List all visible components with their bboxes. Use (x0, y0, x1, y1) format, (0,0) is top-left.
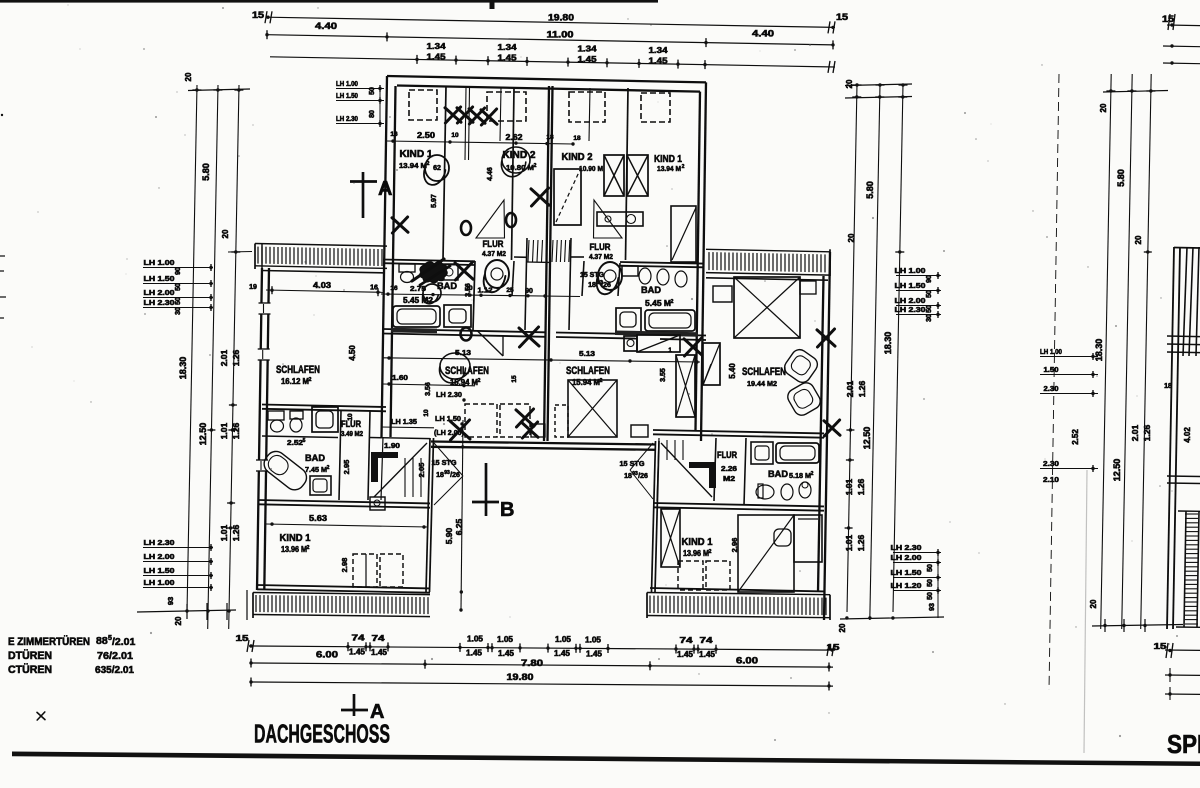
building right outer wall (centre block) (701, 82, 706, 441)
svg-text:1.26: 1.26 (1142, 424, 1152, 441)
svg-text:12.50: 12.50 (1112, 459, 1122, 482)
svg-text:LH 1.00: LH 1.00 (144, 258, 175, 267)
revision scribbles XXXX top (445, 107, 461, 123)
kind1 dashed furniture (353, 554, 377, 587)
svg-text:18.30: 18.30 (1094, 339, 1104, 362)
svg-text:3.49 M2: 3.49 M2 (341, 431, 363, 438)
svg-text:5.90: 5.90 (444, 527, 454, 544)
door mark O left unit (461, 328, 472, 341)
sheet top edge line (0, 0, 658, 3)
scribble loop over KIND 2 (501, 147, 530, 177)
svg-text:2.30: 2.30 (1043, 459, 1059, 468)
svg-text:5.80: 5.80 (865, 181, 875, 199)
wall line below TR balcony (706, 278, 828, 280)
svg-text:19.80: 19.80 (548, 13, 574, 23)
top dim chain 19.80 (267, 17, 835, 27)
svg-text:6.00: 6.00 (736, 655, 758, 665)
X scribble at party wall mid (519, 327, 539, 347)
schlafen top wall left unit (dark) (383, 329, 545, 332)
svg-text:3.56: 3.56 (425, 382, 432, 396)
left dimension chain verticals (187, 85, 197, 612)
window breaks on left wing west wall (260, 303, 270, 314)
right unit stairs bottom (657, 438, 659, 501)
svg-text:LH 1.50: LH 1.50 (144, 566, 175, 575)
svg-text:50: 50 (927, 579, 934, 587)
svg-text:635/2.01: 635/2.01 (95, 664, 134, 676)
shower left wing bad (310, 476, 331, 495)
svg-text:13.94 M: 13.94 M (657, 164, 681, 173)
svg-text:5.80: 5.80 (201, 163, 211, 181)
svg-text:18.30: 18.30 (883, 332, 893, 355)
svg-text:1.01: 1.01 (219, 524, 229, 541)
svg-text:1.45: 1.45 (427, 51, 446, 61)
bathtub diagonal left wing (260, 447, 310, 493)
stairs left unit top band (528, 240, 529, 262)
bottom dim chain 19.80 (251, 682, 833, 686)
interior dim line top band (387, 141, 573, 144)
svg-text:4.40: 4.40 (752, 29, 774, 39)
svg-text:1.01: 1.01 (844, 534, 854, 551)
svg-text:2.52: 2.52 (287, 438, 303, 447)
entrance doors top band (476, 200, 505, 238)
svg-text:5.63: 5.63 (309, 514, 328, 523)
shaft boxes with X (604, 155, 624, 196)
right kind1 wardrobe X (661, 509, 680, 567)
svg-text:50: 50 (175, 283, 182, 291)
balcony top-left hatch (255, 244, 387, 247)
svg-text:1.01: 1.01 (844, 478, 854, 495)
right drawing walls (1167, 247, 1174, 629)
top dim chain 4.40 / 11.00 / 4.40 (267, 35, 833, 45)
right unit flur walls (618, 263, 620, 296)
bottom dim chain 6.00 / 7.80 / 6.00 (251, 663, 833, 667)
svg-text:2.52: 2.52 (1071, 429, 1080, 445)
svg-text:1.26: 1.26 (856, 534, 866, 551)
svg-text:50: 50 (927, 592, 934, 600)
schlafen top wall right unit (dark) (556, 333, 706, 336)
svg-text:30: 30 (175, 307, 182, 315)
schlafen dim line both units (383, 358, 700, 362)
svg-text:7.80: 7.80 (521, 658, 543, 668)
svg-text:1.34: 1.34 (578, 44, 597, 54)
svg-text:50: 50 (369, 87, 376, 95)
svg-text:LH 1.50: LH 1.50 (891, 568, 922, 577)
svg-text:4.50: 4.50 (348, 345, 357, 361)
svg-text:/26: /26 (638, 473, 648, 480)
svg-text:2: 2 (811, 471, 814, 477)
svg-text:2: 2 (307, 545, 310, 551)
svg-text:30: 30 (926, 314, 933, 322)
svg-text:SCHLAFEN: SCHLAFEN (566, 365, 610, 377)
svg-text:16: 16 (390, 285, 398, 292)
svg-text:1.34: 1.34 (649, 45, 668, 55)
svg-text:6.00: 6.00 (316, 650, 338, 660)
svg-text:15 STG: 15 STG (620, 459, 645, 468)
section marker B (485, 463, 488, 516)
KIND rooms bottom walls (383, 260, 475, 262)
svg-text:2.10: 2.10 (1043, 475, 1059, 484)
svg-text:1.45: 1.45 (466, 649, 483, 658)
svg-text:5.13: 5.13 (579, 349, 595, 358)
X on left wall (392, 217, 408, 233)
centre block bottom wall (431, 442, 656, 445)
cabinet right wing (703, 343, 720, 385)
svg-text:90: 90 (175, 267, 182, 275)
X marks centre schlafen (450, 420, 470, 440)
right unit bathtub (645, 310, 695, 331)
svg-text:LH 2.30: LH 2.30 (895, 305, 926, 314)
svg-text:15: 15 (252, 10, 264, 20)
left unit stairs (368, 411, 370, 500)
svg-text:CTÜREN: CTÜREN (8, 663, 52, 676)
balcony bottom-right hatch (647, 593, 830, 595)
svg-text:1.45: 1.45 (498, 53, 517, 63)
svg-text:1.26: 1.26 (856, 478, 866, 495)
right kind1 bottom wall (650, 588, 824, 591)
svg-text:93: 93 (166, 597, 175, 605)
schlafen 16.12 dim (266, 290, 383, 292)
svg-text:1.60: 1.60 (392, 373, 408, 382)
svg-text:10.90 M: 10.90 M (579, 164, 603, 173)
svg-text:2: 2 (682, 164, 685, 170)
right drawing balcony hatch (1184, 511, 1186, 627)
left edge specks (0, 255, 5, 257)
svg-text:74: 74 (700, 636, 714, 645)
door arc gap left (434, 443, 463, 505)
left unit BAD fixtures (399, 264, 415, 272)
svg-text:SPIT: SPIT (1167, 729, 1200, 759)
svg-text:13.94 M: 13.94 M (399, 161, 427, 170)
svg-text:20: 20 (1134, 235, 1143, 244)
svg-text:LH 2.30: LH 2.30 (436, 390, 462, 399)
svg-text:2.95: 2.95 (342, 460, 351, 475)
svg-text:18: 18 (573, 135, 581, 142)
right bottom unit top wall (653, 430, 824, 433)
svg-text:16: 16 (390, 131, 398, 138)
small speck mark (37, 712, 45, 720)
left wing bad top wall (262, 405, 386, 408)
svg-text:5.45 M: 5.45 M (645, 299, 671, 308)
svg-text:2.62: 2.62 (506, 133, 524, 142)
svg-text:1.45: 1.45 (498, 649, 515, 658)
svg-text:1.45: 1.45 (677, 650, 694, 659)
svg-text:1.90: 1.90 (384, 441, 400, 450)
svg-text:18: 18 (624, 473, 632, 480)
right drawing dim verticals (1101, 74, 1112, 629)
sheet top fold tick (490, 0, 495, 9)
svg-text:LH 1.20: LH 1.20 (891, 581, 922, 590)
section marker A top (362, 172, 365, 218)
svg-text:SCHLAFEN: SCHLAFEN (445, 365, 489, 377)
svg-text:LH 1.00: LH 1.00 (336, 79, 358, 88)
svg-text:4.37 M2: 4.37 M2 (482, 249, 506, 258)
top band partitions (443, 86, 446, 260)
svg-text:LH 1.50: LH 1.50 (435, 414, 461, 423)
wall line below TL balcony (262, 271, 385, 273)
O door marks (461, 221, 471, 235)
svg-text:1.05: 1.05 (497, 635, 514, 644)
right drawing section dash line (1049, 74, 1059, 690)
svg-text:1.26: 1.26 (231, 422, 241, 439)
svg-text:DTÜREN: DTÜREN (8, 649, 52, 662)
balcony top-right hatch (706, 249, 830, 252)
kitchenette right unit (624, 336, 637, 351)
right kind1 bed/desk (738, 515, 794, 592)
svg-text:4.46: 4.46 (487, 167, 494, 181)
left chain ticks top (188, 89, 250, 91)
wc loop left bad small (423, 284, 441, 304)
right bad 5.18 (744, 438, 746, 505)
sheet bottom fold bar (12, 752, 1200, 767)
svg-text:15 STG: 15 STG (432, 458, 457, 467)
balcony bottom-left hatch (253, 593, 430, 595)
svg-text:LH 2.30: LH 2.30 (891, 543, 922, 552)
svg-text:A: A (378, 178, 392, 200)
svg-text:62: 62 (433, 165, 441, 172)
svg-text:5.80: 5.80 (1116, 169, 1126, 187)
svg-text:2.30: 2.30 (1044, 384, 1059, 393)
left wing wc fixtures (268, 411, 284, 420)
svg-text:20: 20 (174, 616, 183, 625)
left chain mid ticks (229, 404, 237, 406)
svg-text:2.26: 2.26 (721, 464, 737, 473)
svg-text:13.96 M: 13.96 M (281, 545, 307, 554)
svg-text:50: 50 (927, 564, 934, 572)
svg-text:20: 20 (847, 233, 856, 242)
svg-text:18: 18 (588, 282, 596, 289)
right chain bottom (840, 617, 944, 619)
building outer top wall (387, 76, 706, 82)
svg-text:15: 15 (1154, 641, 1167, 651)
left unit bathtub (393, 306, 440, 327)
X right of blob (455, 262, 473, 280)
svg-text:LH 1.35: LH 1.35 (391, 417, 417, 426)
svg-text:2.01: 2.01 (1130, 424, 1140, 441)
svg-text:1.45: 1.45 (349, 648, 366, 657)
svg-text:LH 2.30: LH 2.30 (144, 538, 175, 547)
svg-text:74: 74 (372, 634, 386, 643)
right kind1 dashed furniture (678, 561, 703, 590)
svg-text:90: 90 (926, 275, 933, 283)
svg-text:1.34: 1.34 (427, 41, 446, 51)
kind1 left dim 5.63 (266, 524, 428, 527)
svg-text:2.01: 2.01 (845, 380, 855, 397)
svg-text:6.25: 6.25 (454, 518, 464, 535)
svg-text:LH 2.00: LH 2.00 (144, 288, 175, 297)
top dim chain 1.34/1.45 windows (270, 57, 835, 67)
svg-text:/2.01: /2.01 (112, 636, 136, 648)
svg-text:LH 2.00: LH 2.00 (895, 296, 926, 305)
svg-text:1.45: 1.45 (699, 650, 716, 659)
right wing outer wall (824, 252, 830, 620)
svg-text:2: 2 (327, 465, 330, 471)
svg-text:11.00: 11.00 (547, 30, 574, 40)
svg-text:KIND 2: KIND 2 (562, 152, 593, 163)
svg-text:LH 1.50: LH 1.50 (144, 274, 175, 283)
svg-text:1.45: 1.45 (554, 649, 571, 658)
right kind1 top wall (653, 503, 824, 506)
svg-text:93: 93 (444, 470, 450, 476)
svg-text:10: 10 (465, 285, 473, 292)
wardrobe top-right room (671, 206, 696, 262)
left unit washbasin (444, 305, 471, 327)
svg-text:15: 15 (511, 375, 518, 383)
left wing shower (312, 407, 338, 432)
gap vertical dim (461, 420, 463, 610)
svg-text:10: 10 (451, 132, 459, 139)
svg-text:2: 2 (600, 378, 603, 384)
svg-text:5: 5 (303, 438, 306, 444)
svg-text:4.03: 4.03 (313, 281, 332, 290)
dashed furniture left schlafen (465, 404, 497, 437)
svg-text:5.18 M: 5.18 M (789, 471, 811, 480)
svg-text:LH 1.00: LH 1.00 (144, 578, 175, 587)
svg-text:10: 10 (423, 409, 430, 417)
svg-text:LH 2.00: LH 2.00 (891, 553, 922, 562)
svg-text:2: 2 (671, 299, 674, 305)
svg-text:15: 15 (836, 12, 848, 22)
svg-text:20: 20 (1099, 103, 1108, 112)
svg-text:FLUR: FLUR (717, 450, 737, 460)
small box circle (370, 497, 385, 510)
svg-text:BAD: BAD (305, 453, 325, 464)
sheet fold shadow line (1084, 470, 1087, 753)
svg-text:LH 1.00: LH 1.00 (1040, 347, 1062, 356)
cistern fixture (597, 212, 643, 226)
blob left bad (420, 262, 447, 283)
wall bad/flur left wing (339, 411, 341, 500)
svg-text:12.50: 12.50 (862, 427, 872, 450)
svg-text:1.34: 1.34 (498, 42, 517, 52)
scribble loop over SCHLAFEN left-centre (440, 353, 470, 383)
svg-text:2.05: 2.05 (417, 463, 426, 478)
svg-text:LH 2.30: LH 2.30 (336, 114, 358, 123)
svg-text:20: 20 (845, 79, 854, 88)
BAD dim line (381, 294, 580, 297)
svg-text:20: 20 (838, 623, 847, 632)
svg-text:4.02: 4.02 (1183, 427, 1192, 443)
svg-text:1.45: 1.45 (578, 54, 597, 64)
circle scribble kind1 (424, 155, 449, 185)
svg-text:93: 93 (929, 603, 936, 611)
svg-text:50: 50 (926, 290, 933, 298)
svg-text:15 STG: 15 STG (580, 270, 604, 279)
svg-text:4.40: 4.40 (315, 21, 337, 31)
svg-text:1.45: 1.45 (586, 649, 603, 658)
svg-text:2.01: 2.01 (219, 349, 229, 366)
svg-text:1.05: 1.05 (467, 635, 484, 644)
svg-text:LH 2.30: LH 2.30 (144, 298, 175, 307)
svg-text:19.44 M2: 19.44 M2 (747, 379, 777, 388)
svg-text:18: 18 (436, 472, 444, 479)
svg-text:LH 1.50: LH 1.50 (336, 91, 358, 100)
right dimension chain verticals (847, 84, 857, 612)
svg-text:20: 20 (184, 72, 193, 81)
svg-text:20: 20 (1089, 599, 1098, 608)
svg-text:1.05: 1.05 (585, 635, 602, 644)
svg-text:74: 74 (680, 636, 694, 645)
svg-text:5.40: 5.40 (728, 363, 737, 379)
svg-text:2: 2 (534, 163, 537, 169)
svg-text:76/2.01: 76/2.01 (97, 650, 133, 662)
svg-text:4.37 M2: 4.37 M2 (589, 252, 613, 261)
svg-text:15: 15 (1162, 14, 1174, 24)
svg-text:KIND 2: KIND 2 (503, 150, 536, 161)
svg-text:2: 2 (709, 549, 712, 555)
kind1 left bottom wall (257, 585, 430, 588)
svg-text:2: 2 (309, 377, 312, 383)
X near party wall (531, 188, 549, 206)
svg-text:18.30: 18.30 (178, 357, 188, 380)
wc loop right flur (597, 262, 622, 294)
svg-text:KIND 1: KIND 1 (280, 533, 311, 544)
svg-text:1.26: 1.26 (231, 524, 241, 541)
svg-text:16: 16 (370, 285, 378, 292)
svg-text:10: 10 (347, 413, 354, 421)
svg-text:1.45: 1.45 (649, 55, 668, 65)
svg-text:DACHGESCHOSS: DACHGESCHOSS (254, 721, 390, 749)
left chain bottom (137, 610, 236, 612)
svg-text:5.13: 5.13 (455, 348, 471, 357)
kind1 left top wall (258, 500, 430, 503)
svg-text:SCHLAFEN: SCHLAFEN (742, 366, 786, 378)
wc loop left flur (484, 260, 509, 292)
closet right unit (554, 169, 581, 225)
X right wing wall (817, 329, 835, 347)
bottom dim chain window widths (249, 646, 835, 650)
bed right wing (734, 277, 800, 338)
svg-text:50: 50 (926, 305, 933, 313)
svg-text:2.50: 2.50 (417, 131, 436, 140)
svg-text:15: 15 (827, 642, 840, 652)
svg-text:1.26: 1.26 (231, 349, 241, 366)
svg-text:1.45: 1.45 (371, 648, 388, 657)
svg-text:2.98: 2.98 (340, 558, 349, 573)
section marker A bottom (353, 694, 356, 716)
flur walls left unit (512, 261, 514, 296)
svg-text:E ZIMMERTÜREN: E ZIMMERTÜREN (8, 635, 90, 648)
svg-text:BAD: BAD (641, 285, 661, 296)
svg-text:1.50: 1.50 (1044, 365, 1059, 374)
svg-text:B: B (500, 499, 514, 521)
svg-text:7.45 M: 7.45 M (305, 465, 327, 474)
svg-text:1.26: 1.26 (857, 380, 867, 397)
svg-text:3.55: 3.55 (660, 368, 667, 382)
svg-text:20: 20 (221, 229, 230, 238)
right kind1 left wall (655, 441, 659, 592)
left unit BAD wall to flur (473, 261, 475, 330)
building left outer wall (centre block) (382, 76, 388, 437)
svg-text:80: 80 (369, 110, 376, 118)
svg-text:BAD: BAD (768, 469, 788, 480)
svg-text:18: 18 (1164, 383, 1172, 390)
right unit BAD fixtures (622, 266, 638, 276)
svg-text:88: 88 (96, 635, 108, 647)
svg-text:M2: M2 (723, 476, 735, 483)
chairs right wing (782, 347, 821, 386)
svg-text:19: 19 (249, 284, 257, 291)
kind1 right wall / centre gap edge (426, 438, 430, 592)
svg-text:1.01: 1.01 (219, 422, 229, 439)
svg-text:13.96 M: 13.96 M (683, 549, 709, 558)
svg-text:LH 1.50: LH 1.50 (895, 281, 926, 290)
svg-text:19.80: 19.80 (507, 672, 534, 682)
roof window dashed rects (409, 90, 437, 120)
svg-text:18: 18 (546, 134, 554, 141)
svg-text:LH 1.00: LH 1.00 (895, 266, 926, 275)
left wing outer wall (257, 268, 262, 590)
party wall (544, 86, 549, 441)
